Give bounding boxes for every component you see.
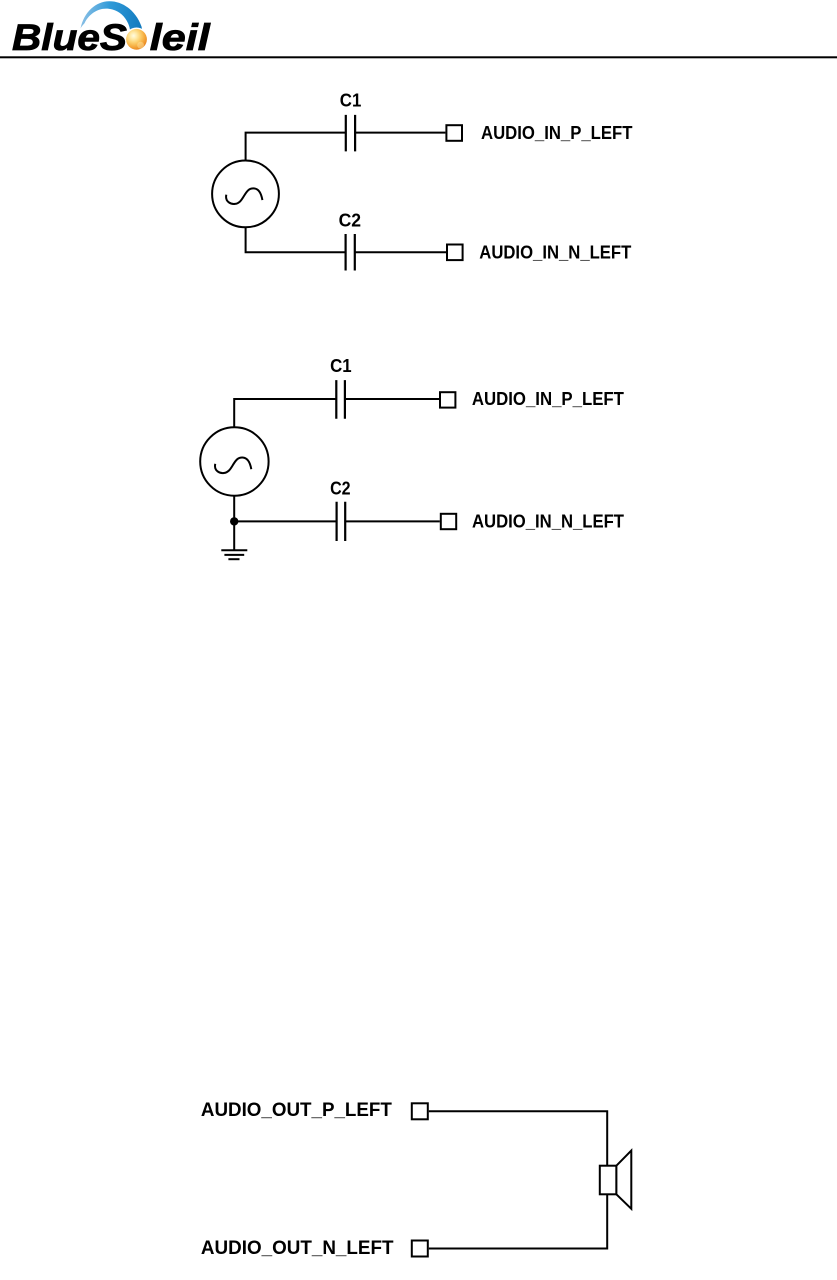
svg-text:leil: leil — [150, 17, 211, 58]
svg-text:AUDIO_OUT_P_LEFT: AUDIO_OUT_P_LEFT — [201, 1099, 392, 1121]
svg-text:BlueS: BlueS — [12, 17, 127, 58]
svg-text:AUDIO_IN_N_LEFT: AUDIO_IN_N_LEFT — [472, 510, 625, 531]
svg-text:AUDIO_IN_N_LEFT: AUDIO_IN_N_LEFT — [479, 242, 632, 263]
svg-text:AUDIO_OUT_N_LEFT: AUDIO_OUT_N_LEFT — [201, 1237, 394, 1259]
svg-text:C2: C2 — [330, 479, 351, 499]
svg-text:AUDIO_IN_P_LEFT: AUDIO_IN_P_LEFT — [481, 122, 633, 143]
svg-text:C2: C2 — [339, 211, 362, 231]
svg-text:AUDIO_IN_P_LEFT: AUDIO_IN_P_LEFT — [472, 388, 625, 409]
svg-text:C1: C1 — [330, 356, 352, 376]
svg-text:C1: C1 — [340, 91, 362, 111]
